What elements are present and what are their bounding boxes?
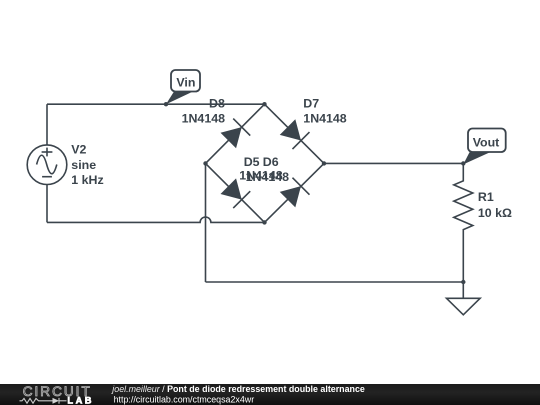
node ground junction [461, 280, 465, 284]
CircuitLab logo squiggle resistor [20, 398, 53, 403]
diode D6 [280, 178, 310, 208]
wire bottom horizontal ground net [206, 281, 464, 283]
ground [447, 282, 481, 315]
footer bar [0, 384, 540, 405]
node right vertex [322, 161, 326, 165]
wire bottom of source to bridge bottom vertex with hop [47, 217, 265, 222]
node Vout junction [461, 161, 465, 165]
wire right vertex to resistor Vout net [324, 162, 463, 164]
net flag Vout [463, 129, 505, 165]
diode D7 [280, 119, 310, 149]
CircuitLab logo diode [53, 398, 60, 404]
net flag Vin [166, 70, 200, 104]
svg-text:LAB: LAB [67, 396, 94, 405]
node bottom vertex [262, 220, 266, 224]
diode D5 [221, 178, 251, 208]
node top vertex [262, 102, 266, 106]
diode D8 [221, 119, 251, 149]
svg-text:joel.meilleur / Pont de diode: joel.meilleur / Pont de diode redresseme… [111, 384, 365, 394]
node left vertex [203, 161, 207, 165]
wire left vertex down [205, 163, 207, 282]
svg-text:http://circuitlab.com/ctmceqsa: http://circuitlab.com/ctmceqsa2x4wr [114, 394, 255, 404]
node Vin junction [164, 102, 168, 106]
wire from V2 bottom down [46, 185, 48, 223]
wire bridge edge top-left [206, 104, 265, 163]
wire top horizontal Vin net [47, 103, 265, 105]
voltage source V2 [27, 145, 67, 185]
wire bridge edge top-right [265, 104, 325, 163]
V2 label [71, 143, 103, 187]
resistor R1 [454, 163, 473, 282]
wire from V2 top to top wire [46, 104, 48, 145]
wire bridge edge bottom-left [206, 163, 265, 222]
wire bridge edge bottom-right [265, 163, 325, 222]
